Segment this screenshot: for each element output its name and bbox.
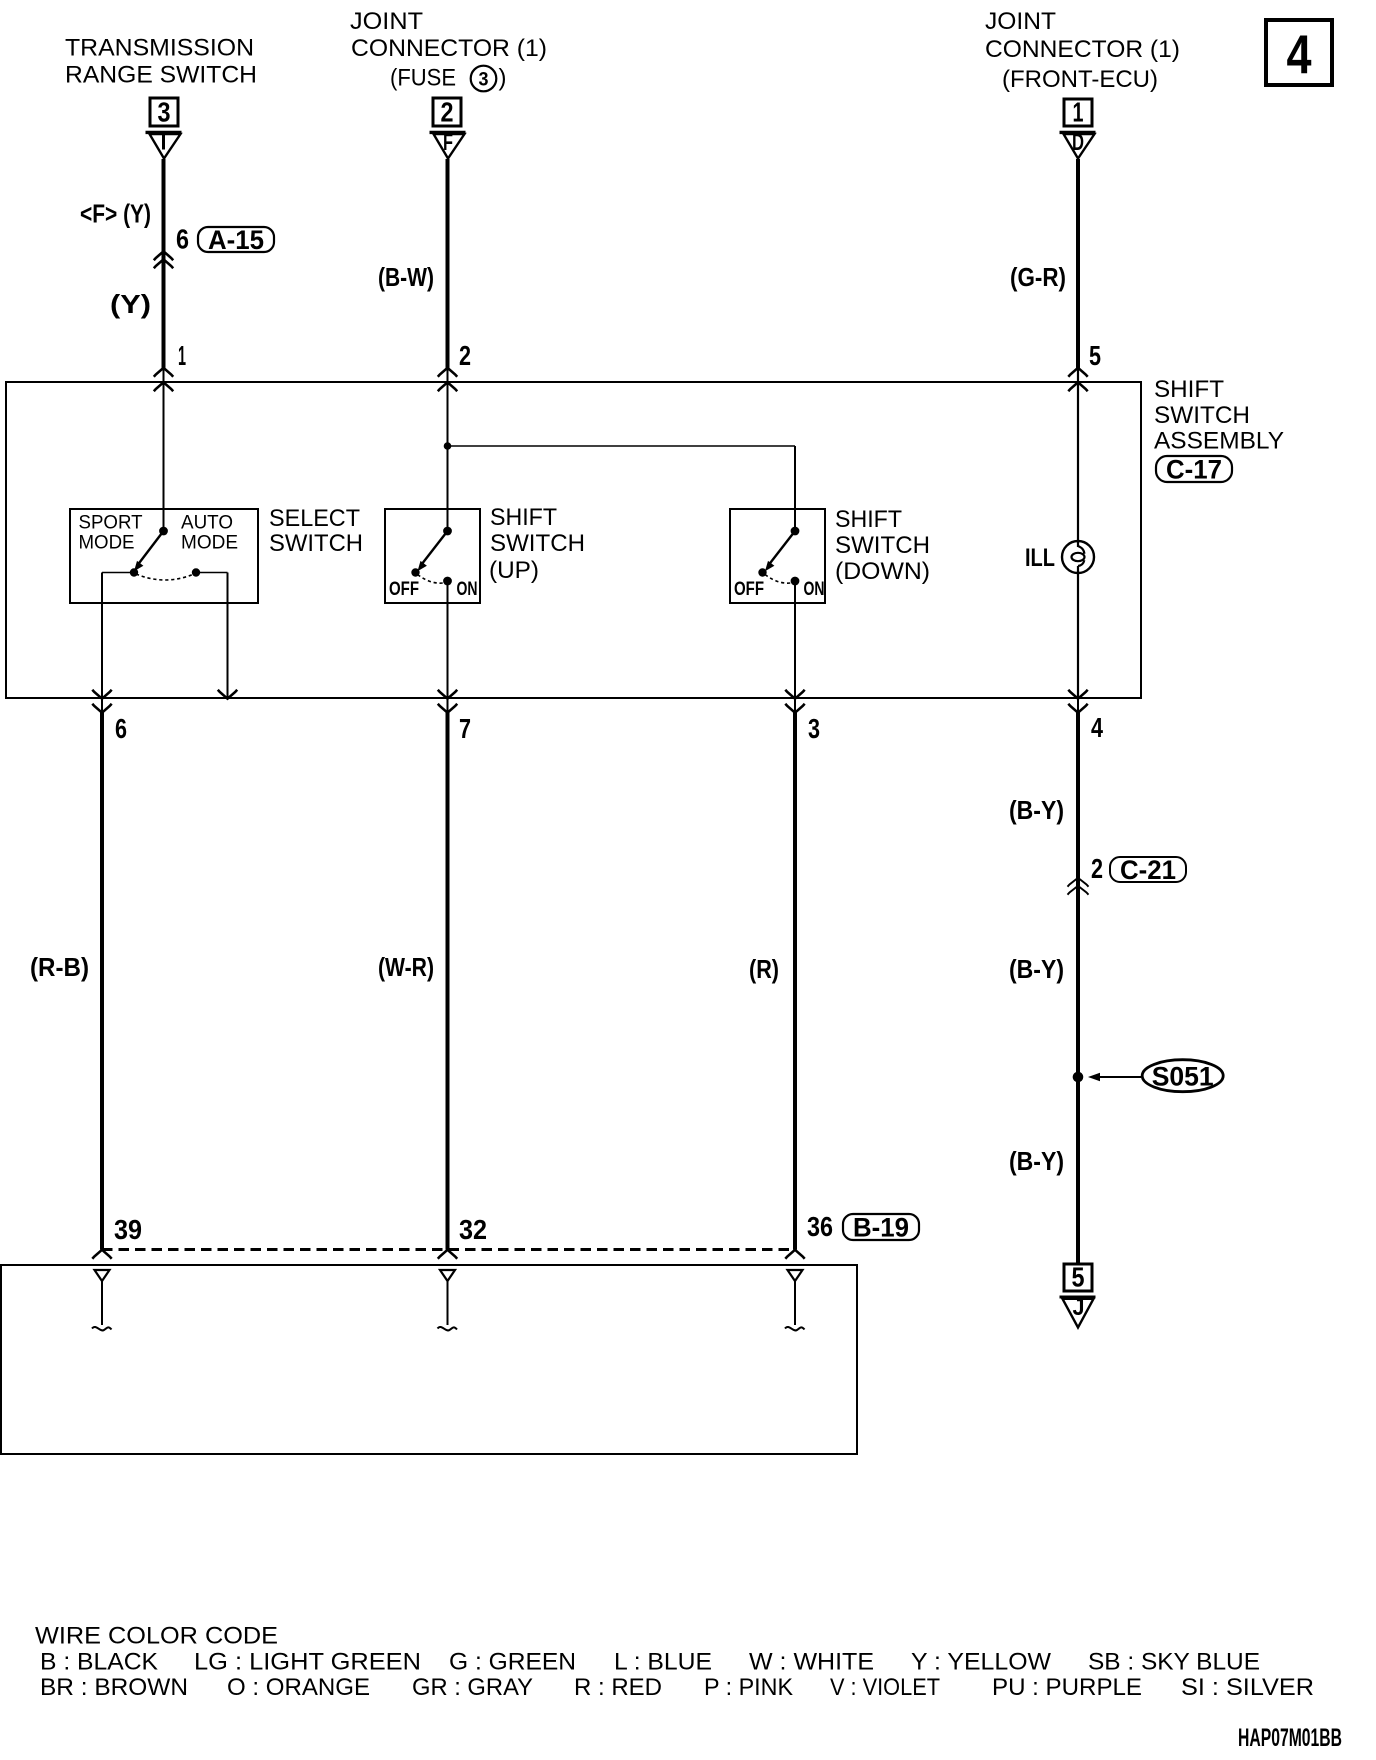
- svg-text:Y : YELLOW: Y : YELLOW: [911, 1649, 1051, 1676]
- svg-text:3: 3: [158, 97, 171, 128]
- svg-text:JOINT: JOINT: [985, 8, 1056, 35]
- svg-text:(G-R): (G-R): [1010, 262, 1066, 292]
- svg-text:F: F: [443, 129, 453, 156]
- svg-text:MODE: MODE: [79, 532, 135, 554]
- svg-text:TRANSMISSION: TRANSMISSION: [65, 35, 254, 62]
- svg-text:CONNECTOR (1): CONNECTOR (1): [985, 36, 1180, 63]
- svg-text:(W-R): (W-R): [378, 952, 434, 982]
- svg-text:C-17: C-17: [1166, 455, 1222, 485]
- svg-text:6: 6: [176, 224, 189, 255]
- svg-text:SWITCH: SWITCH: [1154, 402, 1250, 429]
- svg-text:3: 3: [479, 70, 489, 91]
- svg-text:SI : SILVER: SI : SILVER: [1181, 1674, 1314, 1701]
- svg-text:SWITCH: SWITCH: [490, 530, 585, 557]
- svg-text:MODE: MODE: [181, 532, 238, 554]
- svg-text:SHIFT: SHIFT: [490, 504, 557, 531]
- svg-text:D: D: [1072, 129, 1084, 156]
- svg-text:(B-W): (B-W): [378, 262, 434, 292]
- svg-text:(FUSE: (FUSE: [390, 65, 456, 92]
- svg-text:JOINT: JOINT: [350, 8, 423, 35]
- svg-text:(B-Y): (B-Y): [1009, 954, 1064, 984]
- svg-text:SHIFT: SHIFT: [1154, 376, 1224, 403]
- svg-text:GR : GRAY: GR : GRAY: [412, 1674, 533, 1701]
- svg-text:LG : LIGHT GREEN: LG : LIGHT GREEN: [194, 1649, 421, 1676]
- svg-text:ASSEMBLY: ASSEMBLY: [1154, 428, 1284, 455]
- svg-text:SWITCH: SWITCH: [835, 532, 930, 559]
- svg-text:W : WHITE: W : WHITE: [749, 1649, 874, 1676]
- svg-text:(B-Y): (B-Y): [1009, 795, 1064, 825]
- svg-text:B : BLACK: B : BLACK: [40, 1649, 158, 1676]
- svg-text:O : ORANGE: O : ORANGE: [227, 1674, 370, 1701]
- svg-text:SHIFT: SHIFT: [835, 506, 902, 533]
- svg-text:L : BLUE: L : BLUE: [614, 1649, 712, 1676]
- svg-text:P : PINK: P : PINK: [704, 1674, 793, 1701]
- svg-text:C-21: C-21: [1120, 855, 1176, 885]
- svg-text:(Y): (Y): [110, 289, 151, 319]
- svg-text:BR : BROWN: BR : BROWN: [40, 1674, 188, 1701]
- svg-text:2: 2: [1091, 853, 1103, 884]
- svg-text:OFF: OFF: [389, 579, 419, 600]
- svg-text:(B-Y): (B-Y): [1009, 1146, 1064, 1176]
- svg-text:SWITCH: SWITCH: [269, 530, 363, 557]
- svg-text:CONNECTOR (1): CONNECTOR (1): [351, 35, 547, 62]
- svg-text:V : VIOLET: V : VIOLET: [830, 1674, 940, 1701]
- svg-text:SELECT: SELECT: [269, 505, 360, 532]
- svg-text:R : RED: R : RED: [574, 1674, 662, 1701]
- svg-text:7: 7: [459, 713, 471, 744]
- svg-text:A-15: A-15: [208, 225, 264, 255]
- svg-text:G : GREEN: G : GREEN: [449, 1649, 576, 1676]
- svg-text:ON: ON: [804, 579, 825, 600]
- svg-text:4: 4: [1091, 712, 1103, 743]
- svg-text:AUTO: AUTO: [181, 512, 233, 534]
- svg-text:HAP07M01BB: HAP07M01BB: [1238, 1724, 1342, 1752]
- svg-text:SPORT: SPORT: [79, 512, 143, 534]
- svg-text:WIRE COLOR CODE: WIRE COLOR CODE: [35, 1623, 278, 1650]
- svg-text:SB : SKY BLUE: SB : SKY BLUE: [1088, 1649, 1260, 1676]
- svg-text:ON: ON: [457, 579, 478, 600]
- svg-text:1: 1: [178, 340, 186, 371]
- svg-text:PU : PURPLE: PU : PURPLE: [992, 1674, 1142, 1701]
- svg-text:1: 1: [1073, 97, 1084, 128]
- svg-text:4: 4: [1287, 23, 1312, 85]
- svg-text:6: 6: [115, 713, 127, 744]
- svg-text:J: J: [1073, 1294, 1085, 1321]
- svg-text:5: 5: [1072, 1262, 1085, 1293]
- svg-text:(R-B): (R-B): [30, 952, 89, 982]
- svg-text:(FRONT-ECU): (FRONT-ECU): [1002, 66, 1158, 93]
- svg-text:39: 39: [114, 1214, 142, 1245]
- svg-text:): ): [499, 65, 507, 92]
- svg-text:32: 32: [459, 1214, 487, 1245]
- svg-text:5: 5: [1089, 340, 1101, 371]
- svg-text:2: 2: [459, 340, 471, 371]
- svg-text:ILL: ILL: [1025, 544, 1055, 572]
- svg-text:(UP): (UP): [489, 557, 539, 584]
- svg-text:36: 36: [807, 1211, 833, 1242]
- svg-text:(DOWN): (DOWN): [835, 558, 930, 585]
- svg-text:(R): (R): [749, 954, 779, 984]
- svg-text:<F> (Y): <F> (Y): [80, 199, 151, 229]
- svg-text:2: 2: [441, 97, 454, 128]
- svg-text:RANGE SWITCH: RANGE SWITCH: [65, 62, 257, 89]
- svg-text:B-19: B-19: [853, 1213, 909, 1243]
- svg-text:OFF: OFF: [734, 579, 764, 600]
- svg-text:S051: S051: [1152, 1062, 1214, 1092]
- svg-text:3: 3: [808, 713, 820, 744]
